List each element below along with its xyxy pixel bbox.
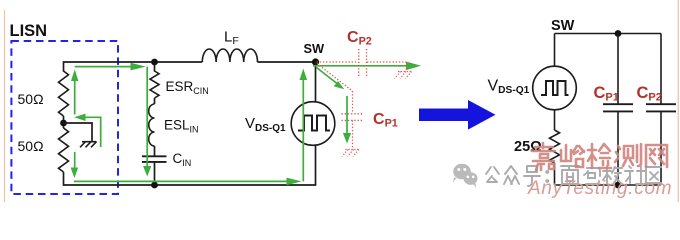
resistor 25 ohm: [550, 130, 560, 163]
green current path: down CP1 branch: [343, 96, 351, 144]
inductor LF: [202, 49, 257, 62]
wire: source to 25 ohm: [554, 110, 556, 130]
equivalent-circuit arrow: [419, 100, 496, 130]
wire: bottom horizontal return: [64, 184, 316, 186]
source V_DS-Q1 (switching node waveform source): [291, 102, 335, 146]
green current path: SW diagonal toward CP1: [317, 68, 345, 90]
parasitic net: red dotted SW diagonal to CP1: [317, 64, 353, 114]
V_DS-Q1 label (right schematic): [488, 78, 530, 97]
green current path: along top wire: [75, 63, 146, 71]
green current path: along bottom wire: [74, 178, 302, 186]
green current path: up through 50 ohm branch: [71, 69, 79, 178]
capacitor CP1 (right schematic): [603, 104, 633, 111]
green current path: from earth into divider midpoint: [74, 114, 101, 147]
LF label: [224, 29, 239, 48]
CP2 label (left schematic): [347, 29, 372, 48]
wire: CIN to bottom wire: [154, 162, 156, 186]
50 ohm bottom value label: [18, 138, 44, 154]
wire: CP2 branch bottom (right schematic): [660, 111, 662, 185]
wire: top horizontal (LISN to L_F): [64, 61, 203, 63]
LISN label: [10, 22, 48, 40]
wire: ESR to ESL: [154, 98, 156, 104]
capacitor CIN: [142, 156, 167, 162]
svg-text:50Ω: 50Ω: [18, 91, 44, 107]
node: top wire / CIN branch junction: [151, 59, 158, 66]
wire: junction to LISN ground: [64, 123, 93, 142]
wire: between 50 ohm resistors: [63, 116, 65, 128]
green current path: down CIN branch: [143, 67, 151, 177]
CIN label: [173, 151, 192, 168]
svg-text:LISN: LISN: [10, 22, 48, 40]
wire: CP1 branch top (right schematic): [617, 34, 619, 105]
ESL_IN label: [164, 118, 199, 135]
wire: ESL to CIN: [154, 146, 156, 156]
SW label (right schematic): [551, 18, 575, 34]
svg-text:AnyTesting.com: AnyTesting.com: [527, 178, 672, 199]
capacitor CP2 (parasitic, left schematic): [359, 49, 367, 76]
ground: LISN earth symbol: [80, 142, 97, 148]
ground: CP1 parasitic earth (red): [342, 150, 359, 157]
wire: switch source to bottom wire: [315, 145, 317, 186]
svg-text:SW: SW: [551, 18, 575, 34]
svg-text:SW: SW: [304, 41, 326, 56]
wire: CP2 branch top (right schematic): [660, 34, 662, 105]
CP1 label (left schematic): [373, 111, 398, 130]
parasitic net: red dotted SW to CP2: [317, 61, 407, 63]
watermark: gray channel text: [486, 166, 661, 186]
wire: CP1 branch bottom (right schematic): [617, 111, 619, 185]
V_DS-Q1 label: [245, 115, 286, 134]
SW label: [304, 41, 326, 56]
svg-text:50Ω: 50Ω: [18, 138, 44, 154]
node: bottom wire / CIN branch junction: [151, 182, 158, 189]
watermark: red italic site url: [527, 178, 672, 199]
resistor 50 ohm top: [59, 71, 69, 116]
25 ohm value label: [514, 139, 542, 155]
node: midpoint junction of 50 ohm divider: [60, 120, 67, 127]
watermark: wechat icon: [453, 164, 478, 188]
wire: left branch bottom drop: [63, 172, 65, 186]
green current path: up through source to SW: [300, 69, 308, 182]
CP2 label (right schematic): [637, 84, 662, 104]
wire: right top rail: [555, 33, 662, 35]
inductor ESL_IN: [149, 104, 155, 146]
ESR_CIN label: [166, 79, 209, 96]
resistor ESR_CIN: [150, 71, 159, 98]
watermark: red site name: [532, 143, 667, 170]
wire: top horizontal (L_F to SW): [257, 61, 315, 63]
source V_DS-Q1 (right schematic): [533, 66, 577, 110]
node: right bottom rail junction: [615, 182, 622, 189]
wire: CP1 to red ground: [352, 120, 354, 149]
wire: left branch top drop: [63, 61, 65, 71]
capacitor CP1 (parasitic, left schematic): [342, 114, 364, 121]
wire: SW down to switch source: [315, 62, 317, 102]
wire: right bottom rail: [555, 184, 662, 186]
CP1 label (right schematic): [594, 84, 619, 104]
resistor 50 ohm bottom: [59, 128, 69, 172]
node SW: [312, 58, 319, 65]
LISN enclosure box: [11, 41, 118, 194]
capacitor CP2 (right schematic): [646, 104, 676, 111]
50 ohm top value label: [18, 91, 44, 107]
wire: right source branch top: [554, 34, 556, 67]
green current path: SW toward CP2: [313, 62, 421, 71]
wire: 25 ohm to bottom rail: [554, 163, 556, 185]
ground: CP2 parasitic earth (red): [395, 62, 412, 79]
wire: input cap branch vertical: [154, 62, 156, 72]
node: right top rail junction: [615, 30, 622, 37]
